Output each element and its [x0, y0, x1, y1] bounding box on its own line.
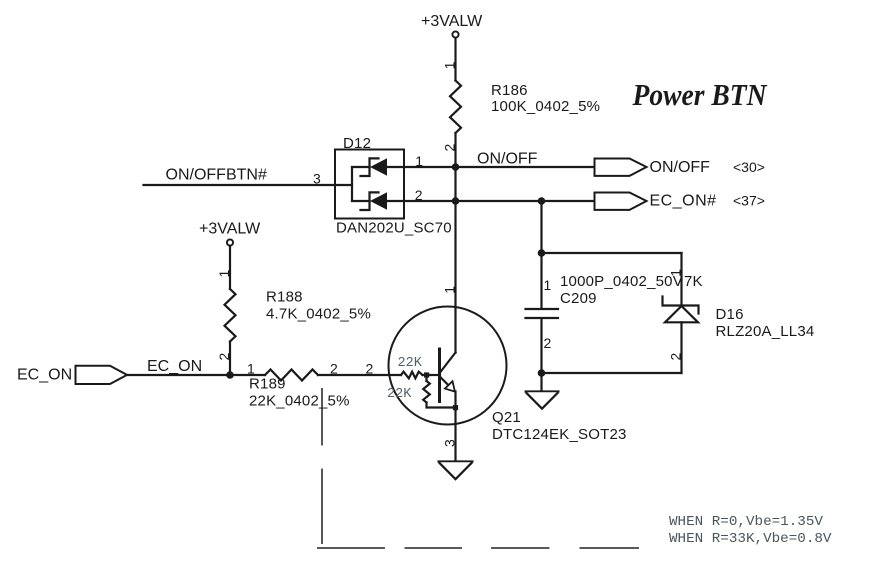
svg-text:4.7K_0402_5%: 4.7K_0402_5% [266, 306, 371, 323]
svg-text:1: 1 [216, 270, 232, 278]
svg-text:DTC124EK_SOT23: DTC124EK_SOT23 [492, 426, 627, 443]
svg-text:+3VALW: +3VALW [421, 13, 483, 30]
svg-text:2: 2 [668, 353, 684, 361]
svg-text:7K: 7K [684, 273, 703, 290]
svg-text:EC_ON#: EC_ON# [650, 193, 717, 210]
svg-text:3: 3 [313, 171, 321, 187]
svg-text:<30>: <30> [733, 159, 765, 175]
svg-text:R186: R186 [491, 82, 528, 99]
svg-text:22K_0402_5%: 22K_0402_5% [249, 393, 350, 410]
svg-text:EC_ON: EC_ON [147, 358, 202, 375]
svg-text:2: 2 [441, 144, 457, 152]
svg-text:ON/OFF: ON/OFF [477, 151, 538, 168]
svg-text:1: 1 [668, 269, 684, 277]
svg-text:WHEN R=0,Vbe=1.35V: WHEN R=0,Vbe=1.35V [669, 514, 823, 530]
svg-text:1: 1 [441, 61, 457, 69]
svg-text:22K: 22K [387, 387, 412, 402]
svg-text:Q21: Q21 [492, 409, 521, 426]
svg-text:100K_0402_5%: 100K_0402_5% [491, 98, 600, 115]
svg-text:2: 2 [544, 335, 552, 351]
svg-text:1000P_0402_50V: 1000P_0402_50V [560, 273, 683, 290]
svg-text:Power BTN: Power BTN [632, 77, 768, 112]
svg-text:R189: R189 [249, 376, 286, 393]
svg-text:C209: C209 [560, 290, 597, 307]
svg-text:22K: 22K [398, 356, 423, 371]
svg-text:2: 2 [366, 361, 374, 377]
svg-text:2: 2 [216, 353, 232, 361]
svg-text:R188: R188 [266, 289, 303, 306]
svg-text:1: 1 [415, 153, 423, 169]
svg-text:DAN202U_SC70: DAN202U_SC70 [336, 220, 452, 237]
svg-text:<37>: <37> [733, 193, 765, 209]
svg-text:ON/OFF: ON/OFF [650, 159, 711, 176]
svg-text:RLZ20A_LL34: RLZ20A_LL34 [716, 323, 815, 340]
svg-text:D12: D12 [343, 135, 371, 152]
svg-text:D16: D16 [716, 306, 744, 323]
svg-text:1: 1 [441, 286, 457, 294]
svg-text:2: 2 [415, 187, 423, 203]
svg-text:WHEN R=33K,Vbe=0.8V: WHEN R=33K,Vbe=0.8V [669, 531, 832, 547]
svg-text:1: 1 [544, 277, 552, 293]
svg-text:ON/OFFBTN#: ON/OFFBTN# [166, 167, 267, 184]
svg-text:2: 2 [330, 361, 338, 377]
svg-text:+3VALW: +3VALW [199, 221, 261, 238]
svg-text:3: 3 [441, 439, 457, 447]
svg-text:1: 1 [247, 361, 255, 377]
svg-text:EC_ON: EC_ON [17, 367, 72, 384]
